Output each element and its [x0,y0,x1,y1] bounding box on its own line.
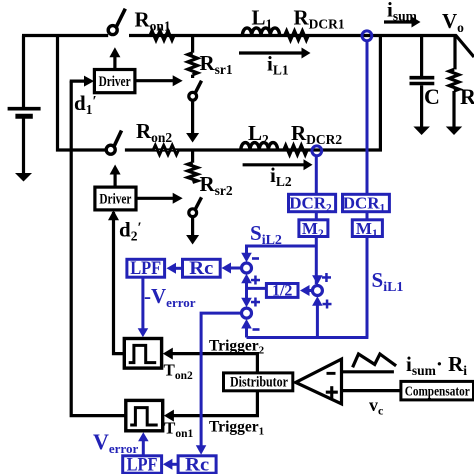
arrow: driver2 gate to S2 [110,165,121,188]
svg-text:Distributor: Distributor [230,375,288,391]
arrow: Rc to LPF lower [163,459,178,470]
arrow: d1' input into driver1 [70,76,94,87]
svg-text:L2: L2 [248,121,269,147]
wire+arrow: summer1 output to Rc (upper) [222,263,242,274]
minus sign at summer1 top [252,257,259,260]
wire: LPF upper down to Ton2 (-Verror) [141,277,144,331]
arrowhead Trigger2 into Ton2 [163,348,173,360]
block Rc lower [178,455,216,474]
resistor Ron1 [150,31,174,40]
wire: SiL1 bus up into summer2 [245,323,248,338]
minus sign at summer2 bottom [253,328,260,331]
block compensator [401,381,474,400]
wire: blue sense line phase2 from node to DCR2 box [315,156,318,194]
sawtooth ramp symbol [353,354,397,367]
wire: Vo corner down to load R [453,36,456,70]
wire: phase-2 rail from S2 to riser [125,148,382,151]
wire: LPF lower up to Ton1 (Verror) [142,437,145,456]
switch SR2 (sync rectifier phase 2) [189,197,202,216]
block LPF upper [127,259,165,279]
plus sign middle summer bottom [323,303,332,306]
svg-text:Verror: Verror [93,429,138,456]
wire: branch to phase 2 [58,36,107,151]
plus sign at summer1 bottom [251,279,260,282]
block M2 (gain phase 2) [299,219,328,240]
resistor Rsr1 [188,53,198,75]
wire: SiL1 up into middle summer [316,303,319,338]
capacitor C plates [410,78,435,84]
battery Vin [8,36,41,175]
wire: ramp input to comparator minus [342,370,394,373]
resistor RDCR2 [284,145,307,154]
wire: Trigger1 from distributor to Ton1 [169,391,257,416]
wire: R to ground [452,91,455,127]
summer1 (top-left summing junction) [242,263,252,273]
svg-text:Ron1: Ron1 [135,8,171,34]
svg-text:Trigger2: Trigger2 [209,338,265,357]
svg-text:Rsr2: Rsr2 [200,172,233,198]
inductor L2 [241,143,278,150]
wire: SiL2 branch to top-left summer [247,246,317,255]
resistor R load [449,69,459,91]
wire: diagonal load stub at Vo [456,35,474,57]
wire: riser joining phase-2 output to summing node [379,36,382,152]
block LPF lower [123,455,162,474]
arrowhead avg into summer2 plus [241,298,252,308]
plus sign at summer2 top [251,301,260,304]
ground for battery [15,173,32,182]
driver U1 (phase 1) [94,70,134,93]
capacitor C lower wire [420,85,423,127]
svg-text:SiL1: SiL1 [372,268,404,295]
wire: avg vertical between summer1 and summer2 [245,277,248,304]
wire: input rail from battery to switch S1 [22,34,108,37]
svg-text:isum· Ri: isum· Ri [406,352,467,378]
wire: Rsr1 to SR switch 1 [191,75,194,78]
svg-text:Vo: Vo [442,9,464,35]
wire: summer2 output left and down to Rc (lower) [201,313,242,449]
ground for C [413,127,430,136]
svg-text:Ton2: Ton2 [164,361,193,383]
svg-text:Compensator: Compensator [405,384,470,399]
wire: 1/2 output to left vertical [247,287,267,290]
wire: SR1 down to phase-2 rail [191,100,194,134]
comparator minus sign [327,372,336,375]
svg-text:iL2: iL2 [270,163,292,189]
node: blue pickup on phase-1 output [362,31,372,41]
block M1 (gain phase 1) [352,219,382,240]
arrowhead avg into summer1 plus [241,274,252,284]
summer2 (bottom-left summing junction) [242,308,252,318]
comparator plus sign [326,391,338,394]
resistor Rsr2 [188,163,198,183]
svg-text:R: R [460,84,474,109]
wire: M2 down to branch junction [315,237,318,285]
arrowhead SiL2 into summer1 minus [241,253,252,263]
svg-text:DCR1: DCR1 [343,194,386,215]
arrowhead Trigger1 into Ton1 [164,410,174,422]
arrow: driver2 output to SR2 [136,193,183,204]
arrowhead -Verror into Ton2 [138,328,149,337]
capacitor C branch wire upper [420,36,423,77]
wire: DCR1 to M1 [366,212,369,220]
inductor L1 [242,28,279,36]
arrow iL1 [239,48,311,59]
arrowhead: SR1 current into node [186,133,199,143]
arrowhead: M2 line into middle summer plus [312,275,323,285]
svg-text:d2′: d2′ [119,218,142,244]
wire: Ton1 output up to driver1 (d1') [71,81,126,416]
switch SR1 (sync rectifier phase 1) [189,81,202,101]
resistor Ron2 [153,145,178,154]
svg-text:Ton1: Ton1 [164,419,193,441]
arrow iL2 [243,159,313,170]
summer3 (middle averaging summer) [312,286,322,296]
arrowhead Verror into Ton1 [138,432,149,441]
wire: phase-1 rail from switch S1 to output node Vo [129,34,457,37]
wire: SR2 down [191,217,194,237]
svg-text:Rc: Rc [189,259,213,279]
resistor RDCR1 [285,31,309,40]
wire: vc from compensator to comparator plus [342,389,401,392]
svg-text:Driver: Driver [99,191,131,207]
svg-text:Driver: Driver [99,74,131,90]
block DCR1 (sense filter phase 1) [343,194,390,215]
block DCR2 (sense filter phase 2) [289,194,336,215]
block Ton2 (on-time generator phase 2) [124,339,161,369]
arrow isum [384,17,421,28]
svg-text:L1: L1 [252,6,273,32]
arrow: Rc to LPF upper [167,263,183,274]
svg-text:Trigger1: Trigger1 [209,419,264,438]
svg-text:-Verror: -Verror [144,284,196,310]
svg-text:RDCR1: RDCR1 [294,6,345,32]
wire: Trigger2 from distributor to Ton2 [168,354,257,373]
block 1/2 (average) [266,282,298,299]
svg-text:iL1: iL1 [267,52,289,78]
svg-text:isum: isum [387,0,418,23]
arrowhead: SR2 current [186,235,199,245]
block Rc upper [183,259,221,279]
arrow: d2' input into driver2 (from Ton2) [108,210,119,220]
wire: blue sense line phase1 from node to DCR1 box [366,41,369,194]
svg-text:d1′: d1′ [74,91,97,117]
arrowhead SiL1 into summer2 minus [241,319,252,329]
driver U2 (phase 2) [95,187,136,210]
arrow: driver1 output to SR1 [135,75,183,86]
wire: Ton2 output up to driver2 (d2') [114,212,125,354]
ground for R [446,127,462,136]
arrow: driver1 gate to S1 [109,47,120,69]
svg-text:RDCR2: RDCR2 [291,121,342,147]
svg-text:Rsr1: Rsr1 [200,51,233,77]
wire: node SW2 to Rsr2 [191,150,194,163]
block Ton1 (on-time generator phase 1) [126,400,163,430]
comparator U3 [296,359,342,404]
node SW1 / wire to Rsr1 branch [191,36,194,53]
svg-text:Rc: Rc [185,455,209,474]
block distributor [224,373,293,391]
svg-text:DCR2: DCR2 [289,194,332,215]
svg-text:C: C [424,84,440,109]
node: blue pickup on phase-2 output [312,146,322,156]
svg-text:LPF: LPF [130,259,161,279]
svg-text:Ron2: Ron2 [136,119,172,145]
svg-text:1/2: 1/2 [272,282,292,299]
switch S2 (main switch phase 2) [106,131,121,155]
wire: M1 down to bottom bus (SiL1) [366,237,369,338]
wire: bottom blue bus [247,336,369,339]
plus sign middle summer top [322,276,331,279]
arrowhead into lower Rc [196,445,207,455]
wire+arrow: middle summer to 1/2 block [300,285,313,296]
svg-text:vc: vc [369,395,384,418]
wire: DCR2 to M2 [315,212,318,220]
arrowhead SiL1 into middle summer plus [312,296,323,306]
switch S1 (main switch phase 1) [108,9,125,35]
svg-text:LPF: LPF [127,455,158,474]
svg-text:SiL2: SiL2 [250,221,282,248]
